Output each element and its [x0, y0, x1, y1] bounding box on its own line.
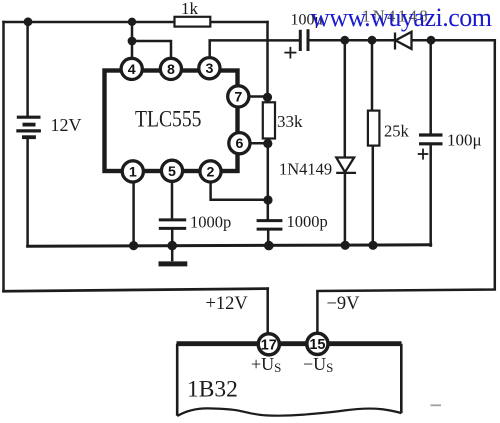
svg-text:4: 4	[128, 62, 136, 78]
svg-text:1000p: 1000p	[287, 212, 328, 231]
svg-text:TLC555: TLC555	[135, 107, 202, 132]
svg-text:2: 2	[207, 164, 215, 180]
svg-text:6: 6	[235, 136, 243, 152]
svg-text:3: 3	[205, 61, 213, 77]
svg-text:1: 1	[129, 164, 137, 180]
svg-text:www.wuyazi.com: www.wuyazi.com	[311, 3, 492, 32]
svg-text:1000p: 1000p	[190, 213, 231, 232]
svg-text:−US: −US	[303, 354, 333, 375]
svg-text:1B32: 1B32	[187, 377, 238, 403]
svg-text:5: 5	[168, 164, 176, 180]
svg-text:7: 7	[234, 89, 242, 105]
svg-text:8: 8	[167, 62, 175, 78]
svg-text:1N4149: 1N4149	[279, 160, 332, 179]
svg-text:33k: 33k	[277, 112, 303, 131]
svg-text:12V: 12V	[51, 115, 82, 135]
svg-text:+US: +US	[251, 354, 281, 375]
svg-text:17: 17	[261, 337, 277, 353]
svg-text:1k: 1k	[181, 0, 199, 18]
svg-text:25k: 25k	[384, 121, 410, 140]
svg-text:15: 15	[309, 337, 325, 353]
svg-text:+12V: +12V	[206, 294, 249, 314]
svg-text:100μ: 100μ	[447, 131, 482, 150]
svg-text:−9V: −9V	[327, 294, 361, 314]
